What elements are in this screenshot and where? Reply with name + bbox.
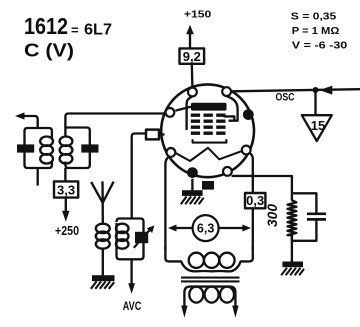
svg-text:V = -6 -30: V = -6 -30 xyxy=(292,39,348,51)
variable capacitor CV xyxy=(135,232,148,243)
winding L4 xyxy=(116,224,129,233)
svg-text:AVC: AVC xyxy=(123,299,142,313)
cathode xyxy=(193,139,227,142)
wire 0,3 box to transformer xyxy=(252,208,254,250)
RC network outline xyxy=(292,193,317,261)
wire +150 to meter box xyxy=(189,31,191,48)
arrow right of 6,3 xyxy=(219,227,243,229)
RF tank outline xyxy=(117,219,144,257)
svg-text:+250: +250 xyxy=(55,223,79,238)
IF primary tank outline xyxy=(25,128,52,145)
IF secondary tank outline xyxy=(65,114,164,137)
svg-text:15: 15 xyxy=(311,118,325,133)
ground under antenna coil xyxy=(91,275,115,289)
arrow secondary right lead xyxy=(232,306,238,318)
node junction on OSC line xyxy=(313,87,319,93)
capacitor C5 plates xyxy=(307,214,326,220)
winding L1 xyxy=(40,137,53,146)
svg-text:0,3: 0,3 xyxy=(246,193,264,208)
grid left bracket from top-left pin xyxy=(187,97,192,130)
pin left-upper xyxy=(166,108,175,117)
svg-text:C (V): C (V) xyxy=(24,40,74,61)
wire coil to ground xyxy=(102,249,104,276)
wire heater left lead down xyxy=(165,157,168,250)
arrow lead of IF transformer primary xyxy=(15,112,25,119)
arrow on OSC line xyxy=(319,86,332,95)
grid rows xyxy=(191,115,227,133)
grid right bracket from top-right pin xyxy=(227,96,238,120)
voltmeter circle 6,3 xyxy=(193,215,219,241)
resistor 300 zigzag xyxy=(288,193,297,241)
capacitor C1 xyxy=(17,144,34,152)
tube base key xyxy=(202,181,214,190)
transformer core xyxy=(181,278,240,282)
antenna xyxy=(91,181,113,224)
filament transformer secondary xyxy=(184,287,235,307)
wire junction to triangle xyxy=(314,90,316,115)
svg-text:6,3: 6,3 xyxy=(197,221,214,235)
plate (anode) xyxy=(191,103,227,111)
antenna coil L3 xyxy=(96,224,110,233)
wire OSC line xyxy=(232,89,360,91)
meter box 9,2 xyxy=(180,48,205,63)
capacitor C2 xyxy=(81,144,98,152)
heater filament xyxy=(175,148,241,161)
pin top-right xyxy=(222,87,231,96)
grid cap terminal xyxy=(146,130,159,140)
svg-text:OSC: OSC xyxy=(276,92,295,104)
arrow left of 6,3 xyxy=(177,227,193,229)
wire grid lead down from tank to AVC xyxy=(130,259,132,284)
meter box 3,3 xyxy=(54,181,78,197)
ground under resistor xyxy=(281,262,304,276)
ground under cathode xyxy=(181,190,204,204)
pin right-lower xyxy=(242,146,251,155)
pin right-upper (filled) xyxy=(243,109,254,120)
arrow secondary left lead xyxy=(181,306,187,318)
wire box to tube pin xyxy=(191,64,194,87)
svg-text:3,3: 3,3 xyxy=(57,182,75,197)
wire and arrow to +250 xyxy=(65,198,67,213)
svg-text:P = 1 MΩ: P = 1 MΩ xyxy=(292,25,340,37)
svg-text:=: = xyxy=(71,23,79,38)
title text 1612 = 6L7 xyxy=(24,13,112,39)
pin left-lower xyxy=(167,148,176,157)
wire bottom-right pin to heater-right line xyxy=(232,175,253,177)
svg-text:1612: 1612 xyxy=(24,13,68,39)
meter box 0,3 xyxy=(245,193,265,208)
arrow up to +150 xyxy=(186,25,194,34)
wire heater right lead + 0,3 box feed xyxy=(250,153,253,193)
pin bottom-right xyxy=(223,167,232,176)
svg-text:+150: +150 xyxy=(184,9,212,21)
wire cathode pin to ground xyxy=(191,179,193,190)
oscillator injection triangle 15 xyxy=(302,115,332,141)
svg-text:9,2: 9,2 xyxy=(183,49,201,64)
winding L2 xyxy=(60,137,73,146)
svg-text:6L7: 6L7 xyxy=(84,22,112,39)
svg-text:300: 300 xyxy=(265,204,280,227)
svg-text:S = 0,35: S = 0,35 xyxy=(291,10,337,22)
pin bottom-left (filled) xyxy=(187,167,198,178)
wire tank to grid cap xyxy=(132,134,146,219)
wire left-upper pin to plate xyxy=(175,107,191,111)
pin top-left xyxy=(188,88,197,97)
filament transformer primary xyxy=(165,246,252,271)
wire branch to cathode resistor xyxy=(253,176,292,193)
stub below primary tank xyxy=(37,168,39,186)
tube V1 envelope xyxy=(161,84,254,177)
